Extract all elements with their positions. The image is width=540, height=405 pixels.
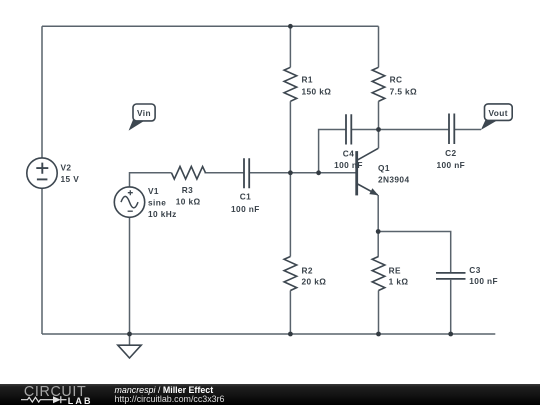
label C2 100 nF xyxy=(436,148,465,170)
CircuitLab logo xyxy=(0,384,110,405)
wire V1 bottom xyxy=(129,217,131,334)
wire RE top lead xyxy=(377,232,379,257)
wire R1 top lead xyxy=(289,26,291,67)
transistor Q1 xyxy=(357,148,379,195)
resistor RE xyxy=(372,257,385,291)
junction node C3 bottom xyxy=(448,332,453,337)
svg-text:2N3904: 2N3904 xyxy=(378,175,409,185)
label Q1 2N3904 xyxy=(378,163,409,185)
capacitor C4 xyxy=(346,114,351,144)
label C4 100 nF xyxy=(334,148,363,170)
svg-text:LAB: LAB xyxy=(68,396,93,405)
svg-text:100 nF: 100 nF xyxy=(334,160,363,170)
wire R1 bottom lead to base node xyxy=(289,101,291,173)
svg-text:1 kΩ: 1 kΩ xyxy=(389,276,409,286)
junction node RE bottom xyxy=(376,332,381,337)
wire emitter node to C3 xyxy=(378,232,451,273)
voltage source V1 xyxy=(114,187,144,217)
label RE 1 kOhm xyxy=(389,265,409,286)
resistor R3 xyxy=(172,167,206,180)
wire V1 top to R3 xyxy=(130,173,172,187)
junction node top R1 xyxy=(288,24,293,29)
wire R2 bottom lead xyxy=(289,291,291,335)
label V1 sine 10 kHz xyxy=(148,186,177,219)
svg-text:sine: sine xyxy=(148,197,166,207)
junction node base C4 xyxy=(316,170,321,175)
wire R2 top lead xyxy=(289,173,291,257)
wire collector node to C2 xyxy=(379,129,450,131)
svg-text:C1: C1 xyxy=(240,192,251,202)
wire top horizontal xyxy=(42,25,379,27)
wire C4 left to base node xyxy=(319,130,346,173)
voltage source V2 xyxy=(27,158,57,188)
label R2 20 kOhm xyxy=(302,265,327,286)
capacitor C1 xyxy=(244,158,249,188)
capacitor C3 xyxy=(436,273,466,279)
capacitor C2 xyxy=(449,114,454,145)
svg-text:C4: C4 xyxy=(343,148,354,158)
resistor R2 xyxy=(284,257,297,291)
wire RE bottom lead xyxy=(378,291,380,335)
wire R3 to C1 xyxy=(205,172,245,174)
label C1 100 nF xyxy=(231,192,260,214)
flag Vin xyxy=(129,104,156,131)
wire RC bottom lead to collector node xyxy=(378,101,380,129)
svg-text:100 nF: 100 nF xyxy=(231,204,260,214)
svg-text:15 V: 15 V xyxy=(61,174,80,184)
label RC 7.5 kOhm xyxy=(390,75,418,97)
label R1 150 kOhm xyxy=(302,75,332,97)
wire emitter vertical xyxy=(377,195,379,232)
label V2 15 V xyxy=(61,163,80,184)
footer bar xyxy=(0,384,540,405)
svg-text:RC: RC xyxy=(390,75,403,85)
ground xyxy=(118,345,141,358)
svg-text:10 kΩ: 10 kΩ xyxy=(176,196,201,206)
svg-text:V2: V2 xyxy=(61,163,72,173)
junction node emitter xyxy=(376,229,381,234)
junction node collector xyxy=(376,127,381,132)
footer text xyxy=(115,386,225,404)
svg-text:100 nF: 100 nF xyxy=(469,276,498,286)
svg-text:10 kHz: 10 kHz xyxy=(148,209,177,219)
flag Vout xyxy=(481,104,512,130)
wire base horizontal xyxy=(249,172,357,174)
svg-text:V1: V1 xyxy=(148,186,159,196)
wire left vertical V2 top xyxy=(41,26,43,158)
label R3 10 kOhm xyxy=(176,185,201,206)
wire bottom horizontal xyxy=(42,333,495,335)
wire C2 to Vout node xyxy=(454,129,481,131)
wire ground stub xyxy=(129,334,131,345)
resistor RC xyxy=(372,67,385,101)
svg-text:C3: C3 xyxy=(469,265,480,275)
svg-text:7.5 kΩ: 7.5 kΩ xyxy=(390,86,418,96)
svg-text:Vin: Vin xyxy=(137,108,151,118)
wire C3 bottom lead xyxy=(450,280,452,334)
svg-text:100 nF: 100 nF xyxy=(436,160,465,170)
svg-text:R1: R1 xyxy=(302,75,313,85)
resistor R1 xyxy=(284,67,297,101)
junction node ground xyxy=(127,332,132,337)
svg-text:R3: R3 xyxy=(182,185,193,195)
junction node R2 bottom xyxy=(288,332,293,337)
svg-text:Vout: Vout xyxy=(488,108,507,118)
svg-text:C2: C2 xyxy=(445,148,456,158)
wire V2 bottom xyxy=(41,188,43,334)
svg-text:20 kΩ: 20 kΩ xyxy=(302,276,327,286)
label C3 100 nF xyxy=(469,265,498,286)
junction node base C1-R1 xyxy=(288,170,293,175)
svg-text:RE: RE xyxy=(389,265,401,275)
wire collector vertical to Q1 xyxy=(378,130,380,149)
svg-text:Q1: Q1 xyxy=(378,163,390,173)
svg-text:150 kΩ: 150 kΩ xyxy=(302,86,332,96)
wire RC top lead xyxy=(378,26,380,67)
wire C4 right to collector node xyxy=(351,129,378,131)
svg-text:R2: R2 xyxy=(302,265,313,275)
